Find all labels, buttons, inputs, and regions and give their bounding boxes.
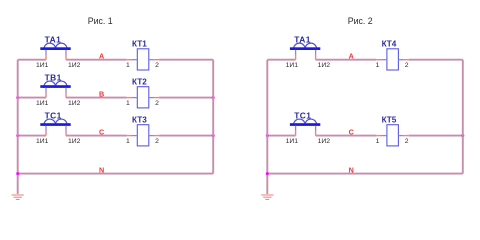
junction left rail / N line	[266, 172, 269, 175]
svg-text:N: N	[349, 165, 354, 174]
svg-text:2: 2	[405, 62, 409, 69]
svg-text:1: 1	[376, 138, 380, 145]
svg-text:2: 2	[155, 138, 159, 145]
wire C-phase: ТС1 to КТ5	[316, 135, 377, 137]
wire B-phase: ТВ1 to КТ2	[66, 97, 127, 99]
svg-text:КТ3: КТ3	[132, 116, 147, 125]
transformer ТА1	[40, 34, 70, 59]
svg-text:1И2: 1И2	[318, 62, 331, 69]
wire C-phase: left rail to ТС1	[267, 135, 295, 137]
ground symbol	[261, 195, 273, 199]
wire A-phase: left rail to ТА1	[18, 59, 46, 61]
junction left rail / B line	[16, 96, 19, 99]
svg-text:1И1: 1И1	[36, 138, 49, 145]
svg-text:2: 2	[155, 100, 159, 107]
junction left rail / N line	[16, 172, 19, 175]
wire A-phase: ТА1 to КТ4	[316, 59, 377, 61]
svg-text:Рис. 1: Рис. 1	[88, 16, 113, 26]
wire C-phase: КТ5 to right rail	[409, 135, 463, 137]
svg-text:1И2: 1И2	[68, 62, 81, 69]
wire left rail	[17, 60, 19, 194]
svg-text:1: 1	[126, 138, 130, 145]
svg-text:1: 1	[376, 62, 380, 69]
wire N line	[18, 173, 214, 175]
ground symbol	[12, 195, 24, 199]
svg-text:A: A	[349, 52, 354, 61]
junction right rail / B line	[212, 96, 215, 99]
svg-text:1: 1	[126, 100, 130, 107]
svg-text:Рис. 2: Рис. 2	[348, 16, 373, 26]
wire A-phase: КТ1 to right rail	[159, 59, 213, 61]
wire C-phase: КТ3 to right rail	[159, 135, 213, 137]
junction right rail / C line	[461, 134, 464, 137]
wire right rail	[462, 60, 464, 174]
svg-text:2: 2	[155, 62, 159, 69]
svg-text:B: B	[99, 89, 104, 98]
svg-text:1И2: 1И2	[68, 100, 81, 107]
wire B-phase: left rail to ТВ1	[18, 97, 46, 99]
relay coil КТ4	[376, 40, 408, 70]
junction left rail / C line	[16, 134, 19, 137]
svg-text:1И2: 1И2	[68, 138, 81, 145]
svg-text:ТА1: ТА1	[45, 34, 62, 44]
svg-text:1И1: 1И1	[286, 138, 299, 145]
relay coil КТ3	[127, 116, 159, 146]
transformer ТС1	[40, 110, 70, 135]
svg-text:ТА1: ТА1	[294, 34, 311, 44]
svg-text:1: 1	[126, 62, 130, 69]
svg-text:C: C	[99, 127, 104, 136]
wire left rail	[266, 60, 268, 194]
svg-text:1И1: 1И1	[286, 62, 299, 69]
svg-text:1И2: 1И2	[318, 138, 331, 145]
svg-text:2: 2	[405, 138, 409, 145]
relay coil КТ2	[127, 78, 159, 108]
wire A-phase: left rail to ТА1	[267, 59, 295, 61]
wire C-phase: left rail to ТС1	[18, 135, 46, 137]
wire N line	[267, 173, 463, 175]
wire A-phase: КТ4 to right rail	[409, 59, 463, 61]
transformer ТС1	[290, 110, 320, 135]
svg-text:КТ4: КТ4	[382, 40, 397, 49]
relay coil КТ1	[127, 40, 159, 70]
svg-text:1И1: 1И1	[36, 100, 49, 107]
wire A-phase: ТА1 to КТ1	[66, 59, 127, 61]
svg-text:A: A	[99, 52, 104, 61]
svg-text:КТ1: КТ1	[132, 40, 147, 49]
svg-text:КТ5: КТ5	[382, 116, 397, 125]
wire B-phase: КТ2 to right rail	[159, 97, 213, 99]
relay coil КТ5	[376, 116, 408, 146]
junction left rail / C line	[266, 134, 269, 137]
wire right rail	[212, 60, 214, 174]
wire C-phase: ТС1 to КТ3	[66, 135, 127, 137]
svg-text:1И1: 1И1	[36, 62, 49, 69]
svg-text:КТ2: КТ2	[132, 78, 147, 87]
transformer ТА1	[290, 34, 320, 59]
junction right rail / C line	[212, 134, 215, 137]
svg-text:C: C	[349, 127, 354, 136]
transformer ТВ1	[40, 72, 70, 97]
svg-text:N: N	[99, 165, 104, 174]
